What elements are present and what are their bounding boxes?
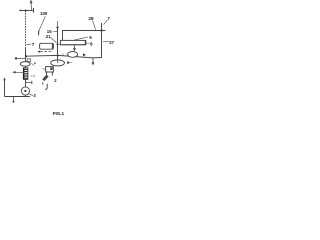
svg-text:100: 100 xyxy=(40,11,48,16)
svg-text:8: 8 xyxy=(90,42,93,47)
svg-text:5: 5 xyxy=(89,35,92,40)
svg-text:7: 7 xyxy=(32,42,35,47)
svg-text:7: 7 xyxy=(107,16,110,21)
svg-text:9: 9 xyxy=(30,1,33,7)
svg-text:FIG.1: FIG.1 xyxy=(53,111,65,116)
svg-text:21: 21 xyxy=(46,34,51,39)
svg-text:27: 27 xyxy=(109,40,114,45)
svg-text:28: 28 xyxy=(88,16,94,21)
